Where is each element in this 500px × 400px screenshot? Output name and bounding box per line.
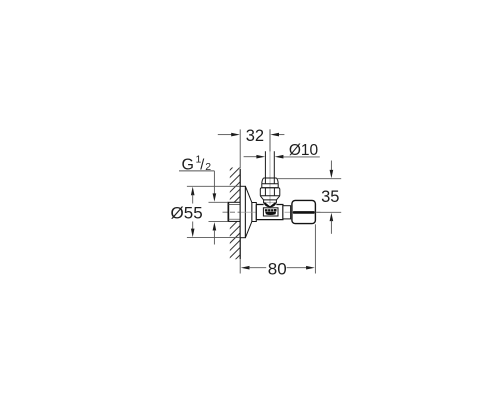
flange cone [245,186,252,237]
compression nut cap [262,178,278,184]
dim 35: bottom arrow (points up) [330,213,334,221]
dim 32: left arrow [218,134,232,136]
vertical centerline of inlet pipe [269,129,271,151]
G1/2 leader + down arrow [213,171,215,194]
funnel chamfer V [264,202,277,207]
outlet connector (right) [283,206,291,219]
axis centerline right of handle [316,211,321,213]
flange neck [252,203,256,222]
nut ring [262,184,278,188]
centerline tick over connector [285,211,291,213]
flange centerline tick [241,211,256,213]
dim 35: extension lines [277,178,341,180]
handle groove [293,211,315,214]
logo plate [263,208,278,216]
dim 32: extension lines [239,129,241,168]
handle knob [292,200,316,223]
dim 80: extension lines [239,259,241,273]
inlet pipe [265,151,274,183]
G1/2 threaded tail [223,202,241,221]
svg-text:Ø55: Ø55 [171,204,203,223]
dim 80: right arrow (points right) [287,267,307,269]
inlet neck into body [264,200,277,204]
dim 32: right arrow [279,134,285,136]
nut lower taper [260,196,280,200]
wall line [239,169,241,259]
svg-text:Ø10: Ø10 [289,142,319,159]
valve body [256,205,283,220]
flange escutcheon base [240,186,245,237]
dim Ø55: dimension line with outward arrows [191,187,195,196]
GROHE logo [265,209,277,215]
dim 80: left arrow (points left) [241,266,250,270]
wall hatching [223,157,243,272]
G1/2 underline [179,170,214,172]
svg-text:32: 32 [246,127,264,145]
svg-text:35: 35 [321,188,339,206]
dim Ø55: extension lines [187,185,240,187]
dim Ø10: left arrow [244,156,257,158]
dim 35: top arrow (points down) [330,161,332,172]
thread extension lines [209,201,229,203]
knurled ring [260,188,280,196]
svg-text:80: 80 [268,260,287,279]
G1/2 bottom up arrow [213,222,217,230]
dim Ø10: right arrow with tail [283,156,320,158]
